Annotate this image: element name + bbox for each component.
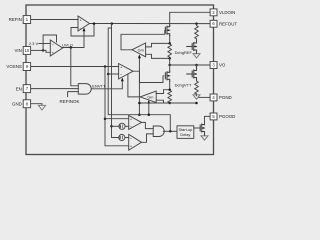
wire VOSNS from pin9 to error amp (31, 66, 119, 68)
transistor Q4 DchgVTT (187, 65, 197, 80)
transistor Q1 source FET (165, 25, 169, 35)
svg-text:EN: EN (16, 86, 22, 91)
node enable x148.8 (148, 113, 151, 116)
svg-text:Gm: Gm (138, 48, 144, 52)
pin 2 VLDOIN (210, 9, 217, 16)
pin 4 PGND (210, 94, 217, 101)
op-amp U1 REFOUT buffer (78, 16, 90, 31)
wire Q2 source down (169, 81, 171, 90)
node V1 tap CMP1 upper (104, 117, 107, 120)
wire Gm1 enable (138, 58, 140, 115)
wire buffer feedback loop (71, 24, 94, 36)
node UVLO output (70, 46, 73, 49)
pin 1 REFIN (23, 16, 30, 24)
wire Q1 source to sense resistor (169, 36, 171, 44)
rail VOSNS V1 (105, 67, 129, 146)
wire enable feed line (139, 115, 170, 132)
wire Gm1 lower input (146, 54, 170, 58)
node rail x139 (138, 102, 141, 105)
source S1 offset (119, 123, 129, 129)
svg-text:DchgVTT: DchgVTT (175, 82, 192, 87)
wire REFIN from pin1 to buffer (31, 19, 79, 21)
source S2 offset (119, 134, 129, 140)
resistor R3 DchgREF (195, 24, 199, 41)
node rail right (195, 102, 198, 105)
wire delay to Q5 gate (194, 127, 200, 129)
op-amp U3 error amplifier (119, 64, 133, 80)
wire Gm1 upper input (146, 43, 170, 47)
svg-text:REFOUT: REFOUT (219, 21, 237, 26)
wire Gm2 lower input (156, 100, 170, 103)
node VO (168, 64, 171, 67)
rail REF V2 (108, 28, 139, 115)
svg-text:REFINOK: REFINOK (60, 99, 80, 104)
transistor Q3 DchgREF (187, 41, 197, 52)
wire 2.3V ref to UVLO (39, 43, 51, 45)
wire GND rail (139, 102, 196, 104)
node rail to error amp (107, 73, 110, 76)
svg-text:ENVTT: ENVTT (92, 84, 106, 89)
svg-text:VO: VO (219, 63, 226, 68)
node sense resistor top (168, 42, 171, 45)
svg-text:PGND: PGND (219, 95, 232, 100)
comparator CMP1 PGOOD high (129, 115, 142, 129)
wire CMP1 out to AND2 (142, 122, 154, 128)
node sense resistor bottom (168, 57, 171, 60)
wire error amp output to sink gate (133, 71, 164, 82)
wire V1 to comparator1 upper input (105, 118, 129, 120)
and-gate U4 PGOOD (153, 126, 164, 137)
wire VIN from pin10 (31, 49, 44, 51)
pin 10 VIN (23, 47, 30, 55)
node delay input (169, 130, 172, 133)
comparator CMP2 PGOOD low (129, 134, 142, 150)
svg-text:10: 10 (25, 48, 30, 53)
pin 8 GND (23, 100, 30, 108)
wire AND2 output to delay (163, 130, 177, 132)
wire VIN to UVLO + input (43, 50, 50, 52)
node REFOUT branch (111, 22, 114, 25)
wire REFINOK stub (68, 92, 79, 97)
wire Gm2 enable (148, 103, 150, 114)
wire V3 to source S1 (112, 125, 119, 127)
transistor Q5 PGOOD pulldown (200, 124, 204, 134)
main block border (26, 5, 214, 155)
wire ENVTT to error amp enable (92, 81, 123, 89)
resistor R1 sense (168, 44, 172, 57)
svg-text:GND: GND (12, 101, 22, 106)
node REFOUT dchg (195, 22, 198, 25)
wire buffer output to REFOUT pin6 (90, 23, 210, 25)
wire VIN to UVLO supply (43, 35, 56, 50)
svg-text:Delay: Delay (180, 132, 190, 137)
wire VLDOIN from pin2 (170, 12, 210, 25)
svg-text:UVLO: UVLO (62, 42, 73, 47)
svg-text:Gm: Gm (147, 95, 153, 99)
wire VO line to pin3 (170, 64, 210, 66)
node VIN branch (42, 49, 45, 52)
svg-text:VOSNS: VOSNS (6, 64, 21, 69)
node V3 tap CMP1 (110, 125, 113, 128)
ground under Q5 (201, 136, 208, 140)
wire EN from pin7 to AND gate (31, 88, 79, 90)
svg-text:VLDOIN: VLDOIN (219, 10, 235, 15)
wire PGOOD pin5 to Q5 (205, 116, 210, 124)
ground under Q3 (193, 54, 200, 58)
resistor R4 DchgVTT (195, 80, 199, 96)
node buffer output (93, 22, 96, 25)
ground near pin8 (38, 105, 45, 110)
Gm1 enable arrow (138, 54, 141, 58)
wire UVLO to AND gate (71, 48, 79, 86)
ground under R4 (193, 95, 200, 99)
wire error amp lower input from REF rail (108, 73, 118, 75)
comparator UVLO (50, 40, 62, 56)
svg-text:2.3 V: 2.3 V (29, 41, 39, 46)
wire UVLO output to buffer enable (63, 32, 84, 48)
buffer enable arrow (83, 28, 86, 32)
wire VO down to sink FET (169, 65, 171, 71)
wire Gm1 output to source FET gate (121, 30, 165, 50)
pin 3 VO (210, 62, 217, 69)
svg-text:VIN: VIN (14, 48, 21, 53)
Gm2 enable arrow (147, 100, 150, 104)
wire to VO node (169, 58, 171, 65)
transistor Q2 sink FET (165, 71, 169, 81)
rail REF V3 (112, 24, 119, 138)
amplifier Gm2 (140, 91, 156, 103)
amplifier Gm1 (132, 43, 146, 57)
pin 6 REFOUT (210, 20, 217, 27)
svg-text:PGOOD: PGOOD (219, 114, 235, 119)
and-gate U2 ENVTT (78, 84, 91, 95)
wire CMP2 out to AND2 (142, 134, 154, 142)
svg-text:REFIN: REFIN (9, 17, 22, 22)
wire GND pin8 to ground (31, 104, 43, 106)
node VOSNS branch (104, 65, 107, 68)
node enable T (138, 113, 141, 116)
wire Gm2 upper input (156, 90, 170, 94)
error amp enable arrow (121, 78, 124, 82)
node R2 bottom (168, 102, 171, 105)
node R2 top (168, 88, 171, 91)
svg-text:DchgREF: DchgREF (175, 50, 193, 55)
wire PGND line to pin4 (199, 96, 210, 98)
pin 5 PGOOD (210, 113, 217, 120)
pin 7 EN (23, 85, 30, 93)
resistor R2 sense (168, 90, 172, 103)
node VO dchg (195, 64, 198, 67)
wire R4 to ground (196, 94, 198, 95)
pin 9 VOSNS (23, 63, 30, 71)
wire error amp to Gm2 input (128, 74, 140, 97)
box Start-up Delay (177, 126, 194, 139)
